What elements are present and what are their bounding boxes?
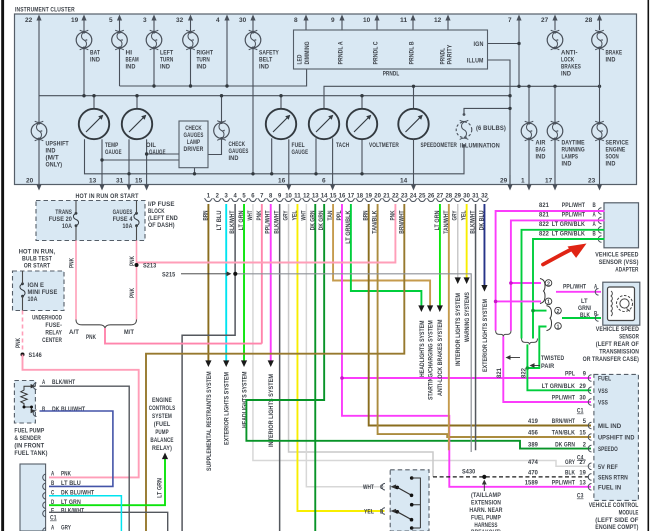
indicator lamp DAYTIME RUNNING LAMPS IND — [547, 121, 585, 167]
wire ILLUM from PRNDL box — [487, 60, 510, 185]
wire pin7 PNK from fuses — [256, 204, 263, 344]
svg-text:27: 27 — [579, 459, 586, 466]
svg-text:LT GRN: LT GRN — [157, 478, 164, 498]
svg-text:FUEL PUMP: FUEL PUMP — [14, 428, 44, 435]
svg-text:FUSE-: FUSE- — [45, 322, 62, 329]
svg-text:LT GRN: LT GRN — [238, 211, 245, 231]
wire SPEEDOMETER top to bus A2 — [413, 86, 415, 109]
svg-text:29: 29 — [454, 193, 461, 200]
svg-text:OIL: OIL — [146, 142, 156, 149]
svg-text:IND: IND — [90, 57, 100, 64]
svg-text:GAUGE: GAUGE — [292, 149, 309, 156]
svg-text:7: 7 — [260, 193, 264, 200]
svg-text:31: 31 — [116, 178, 124, 185]
wire pin4 to bus A1 — [226, 30, 228, 86]
label taillamp extension harness — [469, 492, 502, 531]
svg-text:C1: C1 — [50, 515, 57, 522]
wire pin27 LT GRN to anti-lock brakes — [434, 204, 444, 396]
svg-text:4: 4 — [233, 193, 237, 200]
indicator lamp UPSHIFT IND — [31, 121, 69, 168]
svg-text:822: 822 — [520, 367, 527, 378]
sender resistor symbol — [21, 384, 36, 413]
taillamp switch dashed box — [390, 470, 429, 531]
svg-text:INSTRUMENT CLUSTER: INSTRUMENT CLUSTER — [15, 7, 75, 14]
svg-text:S430: S430 — [462, 469, 476, 476]
svg-text:GAUGES: GAUGES — [184, 132, 204, 139]
svg-text:SOON: SOON — [606, 154, 620, 161]
svg-text:DK GRN: DK GRN — [318, 211, 325, 231]
svg-text:3: 3 — [225, 193, 229, 200]
wire S146 pink to fuel pump A — [23, 355, 139, 478]
svg-text:470: 470 — [528, 470, 538, 477]
svg-text:IND: IND — [536, 154, 546, 161]
wire CHECK GAUGES IND top to bus B — [221, 96, 223, 123]
pin 8 — [294, 15, 309, 31]
exit 15 oil — [135, 175, 149, 191]
pump row C DK BLU/WHT — [43, 490, 95, 500]
svg-text:GAUGES: GAUGES — [113, 209, 133, 216]
svg-text:7: 7 — [508, 17, 512, 24]
svg-text:30: 30 — [239, 17, 247, 24]
svg-text:YEL: YEL — [461, 210, 468, 220]
svg-text:12: 12 — [434, 17, 442, 24]
rail OIL to check gauges driver — [147, 153, 179, 155]
pin 30 — [239, 15, 256, 31]
svg-text:WHT: WHT — [363, 484, 374, 491]
indicator lamp CHECK GAUGES IND — [214, 121, 249, 162]
svg-text:BRN/WHT: BRN/WHT — [552, 418, 575, 425]
adapter row A 822 LT GRN/BLK — [522, 221, 605, 339]
svg-text:A: A — [593, 221, 597, 228]
svg-text:OF DASH): OF DASH) — [148, 222, 175, 229]
svg-text:BEAM: BEAM — [126, 57, 139, 64]
svg-text:PNK: PNK — [61, 470, 71, 477]
svg-text:BLOCK: BLOCK — [148, 208, 165, 215]
S430 dashed black wire to VCM sens rtrn — [433, 476, 591, 478]
pump row A PNK — [43, 470, 72, 480]
gauge VOLTMETER — [347, 109, 399, 149]
page right edge line — [648, 0, 650, 531]
svg-text:ANTI-: ANTI- — [561, 50, 578, 57]
svg-text:VOLTMETER: VOLTMETER — [369, 142, 399, 149]
illumination lamp (6 bulbs) dashed — [456, 113, 506, 149]
wire magenta tee to upper bracket — [496, 300, 541, 302]
svg-text:B: B — [593, 230, 597, 237]
svg-text:22: 22 — [392, 193, 399, 200]
svg-text:EXTERIOR LIGHTS SYSTEM: EXTERIOR LIGHTS SYSTEM — [224, 372, 231, 445]
twisted pair note — [506, 355, 565, 370]
svg-text:IND: IND — [259, 64, 269, 71]
wire pin32 DK BLU to exterior lights — [479, 204, 489, 372]
svg-text:& SENDER: & SENDER — [14, 435, 41, 442]
svg-text:29: 29 — [579, 383, 586, 390]
label HOT IN RUN BULB TEST OR START — [19, 249, 56, 270]
wire OIL left to rail C and exit 31 — [128, 139, 130, 174]
exit 23 service engine soon — [588, 139, 602, 191]
svg-text:VSS: VSS — [598, 400, 608, 407]
page left edge bar — [1, 0, 4, 531]
svg-text:821: 821 — [539, 202, 549, 209]
svg-text:RELAY: RELAY — [45, 330, 62, 337]
wire pin20 TAN/BLK to VCM upshift — [372, 204, 591, 437]
svg-text:13: 13 — [89, 178, 97, 185]
svg-text:CONTROLS: CONTROLS — [149, 405, 176, 412]
switch contacts lower — [391, 509, 421, 530]
indicator lamp ANTI-LOCK BRAKES IND — [547, 30, 581, 77]
svg-text:1: 1 — [521, 178, 525, 185]
wire pin9 BLK/WHT to S430 run — [274, 204, 281, 531]
svg-text:LT GRN/BLK: LT GRN/BLK — [552, 221, 585, 228]
svg-text:FUEL: FUEL — [598, 376, 611, 383]
svg-text:9: 9 — [583, 371, 587, 378]
check gauges lamp driver box — [179, 121, 208, 168]
wire pin23 BRN/WHT long run to bottom left — [146, 204, 405, 531]
VCM row 419 BRN/WHT 5 MIL IND — [528, 418, 622, 430]
wire pin5 to HI BEAM — [119, 30, 121, 32]
rail C lamp return — [85, 139, 465, 174]
svg-text:PRNDL B: PRNDL B — [409, 41, 416, 64]
indicator lamp RIGHT TURN IND — [183, 30, 213, 70]
svg-text:PNK: PNK — [129, 288, 136, 298]
svg-text:ADAPTER: ADAPTER — [615, 267, 638, 274]
svg-text:LT GRN/BLK: LT GRN/BLK — [552, 230, 585, 237]
node S430 — [482, 475, 486, 479]
svg-text:HI: HI — [126, 50, 133, 57]
gauge TEMP GAUGE — [79, 109, 122, 156]
pin 32 — [176, 15, 193, 31]
svg-text:32: 32 — [176, 17, 184, 24]
wire LEFT TURN bottom to bus A1 — [153, 48, 155, 86]
wire pin5 LT GRN to headlights — [238, 204, 248, 428]
wire pin9 into PRNDL — [341, 29, 343, 32]
label vehicle speed sensor transmission — [583, 326, 640, 363]
wire brace to pin7 run — [105, 328, 262, 344]
svg-text:SPEEDOMETER: SPEEDOMETER — [421, 142, 458, 149]
exit 29 illumination — [500, 175, 513, 191]
connector hooks row — [204, 199, 489, 202]
svg-text:BLK/WHT: BLK/WHT — [52, 379, 75, 386]
svg-text:389: 389 — [528, 441, 538, 448]
svg-text:VEHICLE SPEED: VEHICLE SPEED — [595, 252, 638, 259]
indicator lamp BRAKE IND — [592, 30, 622, 63]
svg-text:DK GRN: DK GRN — [555, 441, 575, 448]
svg-text:INTERIOR LIGHTS SYSTEM: INTERIOR LIGHTS SYSTEM — [455, 293, 462, 366]
pump row A GRY — [43, 525, 72, 531]
svg-text:19: 19 — [365, 193, 372, 200]
svg-text:CHECK: CHECK — [185, 125, 202, 132]
svg-text:BALANCE: BALANCE — [150, 437, 173, 444]
svg-text:SENSOR: SENSOR — [619, 334, 639, 341]
svg-text:RIGHT: RIGHT — [197, 50, 214, 57]
svg-text:PPL/WHT: PPL/WHT — [563, 284, 586, 291]
svg-text:18: 18 — [357, 193, 364, 200]
indicator lamp HI BEAM IND — [112, 30, 139, 70]
wire pin19 BRN to VCM MIL — [363, 204, 591, 426]
svg-text:HARNESS: HARNESS — [474, 522, 497, 529]
svg-text:SYSTEM: SYSTEM — [152, 413, 172, 420]
svg-text:BLK/WHT: BLK/WHT — [229, 210, 236, 233]
svg-text:1: 1 — [207, 193, 211, 200]
indicator lamp AIR BAG IND — [521, 121, 546, 160]
svg-text:(6 BULBS): (6 BULBS) — [476, 125, 506, 132]
svg-text:A: A — [593, 212, 597, 219]
svg-text:SPEEDO: SPEEDO — [598, 446, 618, 453]
wire TEMP centre to driver rail — [101, 139, 103, 175]
red arrow annotation — [543, 249, 573, 265]
svg-text:DK BLU/WHT: DK BLU/WHT — [52, 406, 85, 413]
svg-text:20: 20 — [26, 178, 34, 185]
svg-text:13: 13 — [312, 193, 319, 200]
gauge OIL GAUGE — [122, 109, 166, 156]
wire pin3 to LEFT TURN — [153, 30, 155, 32]
switch hook C — [363, 483, 385, 491]
svg-text:VEHICLE SPEED: VEHICLE SPEED — [596, 326, 639, 333]
svg-text:DK GRN: DK GRN — [309, 211, 316, 231]
wire pin13 DK GRN down off page — [309, 204, 316, 531]
svg-text:822: 822 — [539, 221, 549, 228]
wire gauges fuse leg M/T — [136, 201, 138, 241]
fuel pump sender dashed box — [14, 381, 35, 424]
svg-text:TWISTED: TWISTED — [541, 355, 564, 362]
wire VOLTMETER top to bus B — [361, 96, 363, 109]
svg-text:PRNDL: PRNDL — [440, 48, 447, 65]
svg-text:5V REF: 5V REF — [598, 464, 618, 471]
svg-text:5: 5 — [242, 193, 246, 200]
svg-text:IGN E: IGN E — [28, 282, 45, 289]
svg-text:(M/T: (M/T — [46, 155, 59, 162]
svg-text:25: 25 — [419, 193, 426, 200]
wire S215 gray line — [235, 274, 471, 452]
svg-text:WHT: WHT — [300, 210, 307, 220]
svg-text:C3: C3 — [577, 493, 584, 500]
connector pin numbers row 1-32 — [207, 193, 489, 200]
svg-text:8: 8 — [269, 193, 273, 200]
svg-text:BELT: BELT — [259, 57, 272, 64]
svg-text:31: 31 — [472, 193, 479, 200]
instrument cluster box — [15, 14, 637, 185]
svg-text:6: 6 — [251, 193, 255, 200]
svg-text:FUSE 20: FUSE 20 — [49, 216, 73, 223]
svg-text:(LEFT END: (LEFT END — [148, 215, 178, 222]
svg-text:13: 13 — [579, 480, 586, 487]
svg-text:VSS: VSS — [598, 388, 608, 395]
svg-text:ANTI-LOCK BRAKES SYSTEM: ANTI-LOCK BRAKES SYSTEM — [437, 320, 444, 396]
svg-text:32: 32 — [481, 193, 488, 200]
wire trans fuse leg A/T — [75, 201, 77, 241]
wire check gauges driver bottom to rail C — [194, 168, 196, 174]
svg-text:PPL/WHT: PPL/WHT — [562, 202, 585, 209]
svg-text:17: 17 — [348, 193, 355, 200]
wire pin4 BLK/WHT via S215 to fuel pump E — [182, 204, 236, 531]
wire pin3 LT BLU to exterior lights and fuel pump B — [216, 204, 230, 445]
svg-text:821: 821 — [496, 367, 503, 378]
svg-text:LT GRN/BLK: LT GRN/BLK — [345, 210, 352, 244]
indicator lamp LEFT TURN IND — [146, 30, 173, 70]
svg-text:HOT IN RUN OR START: HOT IN RUN OR START — [75, 193, 139, 200]
svg-text:(TAILLAMP: (TAILLAMP — [471, 492, 501, 499]
wire pin22 PNK from S213 — [137, 204, 397, 263]
wire AIR BAG top — [528, 86, 530, 123]
wire BAT IND bottom to bus B — [83, 48, 85, 96]
svg-text:LAMPS: LAMPS — [562, 154, 579, 161]
svg-text:28: 28 — [585, 17, 593, 24]
svg-text:16: 16 — [339, 193, 346, 200]
svg-text:SERVICE: SERVICE — [606, 140, 629, 147]
svg-text:A/T: A/T — [69, 329, 79, 336]
svg-text:(FUEL: (FUEL — [154, 421, 171, 428]
gauge TACH — [309, 109, 350, 149]
svg-text:ENGINE COMPT): ENGINE COMPT) — [595, 524, 638, 531]
svg-text:STARTING/CHARGING SYSTEM: STARTING/CHARGING SYSTEM — [428, 320, 435, 400]
svg-text:5: 5 — [583, 418, 587, 425]
svg-text:RELAY): RELAY) — [152, 445, 172, 452]
svg-text:(LEFT SIDE OF: (LEFT SIDE OF — [595, 517, 638, 524]
exit 13 temp — [89, 175, 105, 191]
svg-text:VEHICLE CONTROL: VEHICLE CONTROL — [589, 502, 639, 509]
adapter row B 822 LT GRN/BLK — [531, 230, 604, 338]
svg-text:TAN/BLK: TAN/BLK — [552, 430, 575, 437]
svg-text:FUEL PUMP: FUEL PUMP — [471, 515, 501, 522]
exit 20 upshift — [26, 175, 42, 191]
bus A1 rail — [120, 69, 307, 86]
svg-text:RUNNING: RUNNING — [562, 147, 585, 154]
svg-text:1: 1 — [547, 300, 550, 306]
svg-text:10: 10 — [285, 193, 292, 200]
svg-text:DK BLU: DK BLU — [479, 210, 486, 230]
wire illumination bulb stub top — [463, 108, 465, 114]
switch hook D — [364, 508, 385, 516]
indicator lamp SERVICE ENGINE SOON IND — [592, 121, 629, 167]
svg-text:B: B — [593, 202, 597, 209]
svg-text:LT: LT — [581, 298, 588, 305]
svg-text:6: 6 — [322, 178, 326, 185]
pin 9 — [331, 15, 345, 31]
svg-text:10A: 10A — [28, 296, 38, 303]
svg-text:PARITY: PARITY — [447, 44, 454, 64]
svg-text:10A: 10A — [123, 223, 133, 230]
svg-text:PPL/WHT: PPL/WHT — [552, 395, 575, 402]
svg-text:MODULE: MODULE — [619, 510, 639, 517]
svg-text:4: 4 — [216, 17, 220, 24]
sender output B DK BLU/WHT — [33, 406, 113, 486]
fuel pump connector box — [20, 464, 46, 531]
wire BRAKE bottom through bus to SES top — [599, 48, 601, 123]
svg-text:B: B — [51, 480, 55, 487]
svg-text:SAFETY: SAFETY — [259, 50, 279, 57]
arrow up to S430 — [482, 480, 487, 492]
svg-text:TURN: TURN — [160, 57, 174, 64]
wire IGN E fuse dashed pink to S146 — [22, 311, 24, 354]
svg-text:PPL: PPL — [336, 210, 343, 220]
adapter row B 821 PPL/WHT — [496, 202, 605, 330]
svg-text:TEMP: TEMP — [105, 142, 118, 149]
wire CHECK GAUGES IND bottom to driver — [208, 138, 222, 155]
exit 16 fuel — [278, 139, 291, 190]
gauge FUEL GAUGE — [266, 109, 308, 156]
wire SAFETY BELT bottom to rail C — [252, 48, 254, 174]
wire VOLTMETER bottom to rail C — [361, 139, 363, 174]
svg-text:LT BLU: LT BLU — [61, 480, 81, 487]
wire pin16 PPL to VCM fuel and fuel in — [336, 204, 591, 487]
svg-text:OR START: OR START — [24, 263, 51, 270]
svg-text:11: 11 — [294, 193, 301, 200]
svg-text:BLK: BLK — [580, 312, 590, 319]
svg-text:PNK: PNK — [389, 210, 396, 220]
VCM row 456 TAN/BLK 15 UPSHIFT IND — [528, 430, 635, 442]
VCM row 1589 PPL/WHT 13 FUEL IN — [525, 480, 622, 492]
svg-text:BRAKE: BRAKE — [606, 50, 623, 57]
svg-text:21: 21 — [383, 193, 390, 200]
svg-text:DRIVER: DRIVER — [184, 146, 204, 153]
svg-text:(LEFT REAR OF: (LEFT REAR OF — [596, 341, 639, 348]
svg-text:8: 8 — [294, 17, 298, 24]
svg-text:23: 23 — [401, 193, 408, 200]
wire pin32 to RIGHT TURN — [190, 30, 192, 32]
pump row B LT BLU — [43, 480, 81, 490]
wire green bracket option 1 — [527, 327, 546, 369]
pump row E BLK/WHT — [43, 507, 168, 531]
svg-text:IND: IND — [46, 148, 56, 155]
indicator lamp BAT IND — [76, 30, 100, 63]
label UNDERHOOD FUSE-RELAY CENTER — [32, 315, 62, 345]
svg-text:GRY: GRY — [283, 211, 290, 221]
svg-text:YEL: YEL — [364, 508, 374, 515]
svg-text:LT GRN/BLK: LT GRN/BLK — [542, 383, 575, 390]
exit 1 air bag — [521, 139, 532, 191]
svg-text:YEL: YEL — [292, 210, 299, 220]
exit 6 tach — [322, 138, 335, 190]
wire 821 merged to VCM — [503, 337, 591, 403]
svg-text:19: 19 — [71, 17, 79, 24]
pin 3 — [143, 15, 157, 31]
wire UPSHIFT bottom down — [38, 139, 40, 175]
upper bracket connector — [540, 279, 552, 306]
svg-text:27: 27 — [541, 17, 549, 24]
wire OIL top to bus B — [136, 96, 138, 109]
svg-text:2: 2 — [216, 193, 220, 200]
svg-text:BLK/WHT: BLK/WHT — [61, 507, 84, 514]
VCM row 389 DK GRN 2 SPEEDO — [528, 441, 618, 453]
svg-text:PPL/WHT: PPL/WHT — [265, 210, 272, 233]
exit 17 daytime — [545, 139, 558, 191]
svg-text:IND: IND — [197, 64, 207, 71]
wire IGN E fuse stub — [22, 271, 24, 311]
svg-text:822: 822 — [539, 230, 549, 237]
svg-text:DIMMING: DIMMING — [304, 41, 311, 64]
svg-text:PNK: PNK — [256, 210, 263, 220]
svg-text:IND: IND — [562, 161, 572, 168]
VCM row PPL 9 FUEL — [565, 371, 611, 383]
svg-text:IND: IND — [229, 155, 239, 162]
wire FUEL top to bus B — [280, 96, 282, 109]
svg-text:CENTER: CENTER — [42, 337, 62, 344]
svg-text:456: 456 — [528, 430, 538, 437]
svg-text:BRN/WHT: BRN/WHT — [398, 210, 405, 233]
wire pin15 TAN to starting/charging — [327, 204, 434, 400]
svg-text:15: 15 — [135, 178, 143, 185]
svg-text:14: 14 — [400, 178, 408, 185]
VCM row 470 BLK 19 SENS RTRN — [528, 470, 628, 482]
svg-text:IND: IND — [606, 161, 616, 168]
svg-text:23: 23 — [588, 178, 596, 185]
svg-text:ONLY): ONLY) — [46, 162, 63, 169]
svg-text:PNK: PNK — [86, 334, 96, 341]
svg-text:PRNDL: PRNDL — [383, 70, 400, 77]
svg-text:MIL IND: MIL IND — [598, 423, 622, 430]
svg-text:10A: 10A — [62, 223, 72, 230]
svg-text:A: A — [51, 470, 55, 477]
svg-text:1589: 1589 — [525, 480, 539, 487]
